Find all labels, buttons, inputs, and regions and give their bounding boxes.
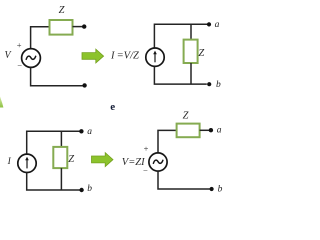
svg-text:a: a [87, 127, 92, 137]
transform arrow (bottom) [92, 153, 114, 167]
wire: impedance to terminal a [200, 129, 210, 131]
arrow inside current source [154, 53, 156, 62]
wire: impedance to terminal [73, 26, 83, 28]
wire: source top up and right to impedance [158, 130, 177, 153]
node b [210, 187, 214, 191]
wire: stub to parallel impedance top [190, 24, 192, 39]
wire: stub to impedance top [60, 131, 62, 147]
impedance Z1 (series, horizontal box) [50, 20, 73, 35]
svg-text:a: a [215, 20, 220, 30]
svg-text:b: b [87, 184, 92, 194]
svg-text:Z: Z [59, 5, 65, 16]
node a [209, 128, 213, 132]
node b (bottom) [79, 188, 83, 192]
wire: bottom rail [27, 173, 80, 191]
voltage source V (circle with sine) [22, 49, 41, 68]
wire: top rail [27, 131, 80, 154]
svg-text:+: + [17, 40, 22, 50]
green sliver (cropped arrow) at left edge [0, 97, 3, 108]
wire: source bottom down and right to terminal b [158, 171, 210, 189]
wire: stub from impedance bottom [60, 168, 62, 190]
node: bottom terminal dot (unlabeled) [82, 83, 86, 87]
svg-text:Z: Z [198, 48, 204, 59]
svg-text:−: − [143, 166, 148, 176]
wire: source bottom down and right to bottom terminal [31, 67, 83, 85]
node a (top) [79, 129, 83, 133]
svg-text:V=ZI: V=ZI [122, 157, 145, 168]
svg-text:a: a [217, 126, 222, 136]
svg-text:Z: Z [183, 111, 189, 122]
wire: stub from impedance bottom [190, 63, 192, 84]
svg-text:b: b [216, 80, 221, 90]
impedance Z3 (parallel, vertical box) [53, 147, 67, 168]
node a (top) [207, 22, 211, 26]
node b (bottom) [207, 82, 211, 86]
svg-text:−: − [17, 61, 22, 71]
svg-text:I =V/Z: I =V/Z [110, 50, 139, 61]
impedance Z2 (parallel, vertical box) [184, 40, 198, 63]
svg-text:b: b [218, 184, 223, 194]
svg-text:Z: Z [68, 154, 74, 165]
sine symbol [26, 56, 36, 59]
svg-text:+: + [144, 144, 149, 154]
voltage source V=ZI (circle with sine) [149, 153, 167, 171]
current source I (circle with up arrow) [18, 154, 36, 172]
sine symbol [153, 160, 163, 163]
wire: bottom rail [154, 66, 206, 84]
impedance Z4 (series, horizontal box) [177, 124, 200, 138]
current source (circle with up arrow) [146, 48, 164, 66]
transform arrow (top) [82, 49, 104, 63]
svg-text:e: e [110, 101, 115, 113]
arrow inside current source [26, 159, 28, 168]
node: top terminal dot (unlabeled) [82, 24, 86, 28]
wire: top rail [154, 24, 207, 48]
wire: top-left corner from source up and right to impedance [31, 27, 50, 49]
